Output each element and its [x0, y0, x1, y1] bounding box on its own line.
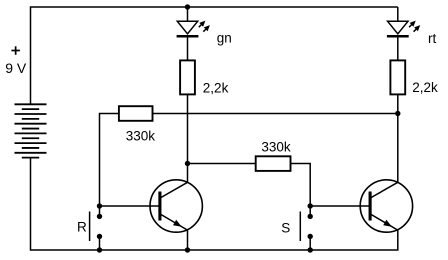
LED D2 light arrow 2	[414, 25, 421, 32]
transistor Q1	[150, 180, 202, 250]
LED D2 light arrow 1	[409, 21, 416, 28]
resistor 2,2k left	[180, 60, 195, 94]
wire cross coupling Q2 collector to 330k left resistor	[153, 113, 398, 115]
wire Q1 collector node to 330k right resistor	[188, 163, 256, 165]
node junction switch R / bottom rail	[97, 247, 102, 252]
resistor 330k left	[119, 106, 153, 121]
node junction Q2 collector / coupling wire	[395, 111, 400, 116]
wire Q2 collector column (resistor bottom to transistor)	[397, 94, 399, 182]
node junction Q2 base / switch S	[308, 203, 313, 208]
node junction Q1 emitter / bottom rail	[185, 247, 190, 252]
wire 330k right to Q2 base	[291, 164, 311, 207]
wire Q2 base	[310, 205, 370, 207]
svg-text:330k: 330k	[261, 140, 291, 155]
switch R	[90, 206, 103, 250]
svg-text:S: S	[281, 221, 290, 236]
wire Q1 base	[100, 205, 161, 207]
LED D1 light arrow 1	[199, 21, 206, 28]
svg-text:2,2k: 2,2k	[203, 80, 229, 95]
node junction top rail / LED1	[185, 4, 190, 9]
svg-text:rt: rt	[428, 31, 436, 46]
wire 330k left to Q1 base	[100, 114, 119, 207]
LED D2 rt	[387, 7, 409, 60]
node junction switch S / bottom rail	[308, 247, 313, 252]
wire top rail right (LED1 node to LED2)	[188, 6, 398, 8]
wire bottom rail right (to Q2 emitter)	[310, 230, 398, 250]
switch S	[300, 206, 313, 250]
node junction Q1 collector / 330k right coupling	[185, 161, 190, 166]
wire top rail left (battery + to LED1 node)	[31, 7, 188, 104]
wire Q1 collector column (resistor bottom to transistor)	[187, 94, 189, 182]
LED D1 gn	[177, 7, 199, 60]
LED D1 light arrow 2	[203, 25, 210, 32]
svg-text:9 V: 9 V	[5, 60, 27, 76]
svg-text:gn: gn	[217, 30, 232, 45]
node junction Q1 base / switch R	[97, 203, 102, 208]
resistor 2,2k right	[390, 60, 405, 94]
battery plus sign label	[11, 46, 20, 55]
transistor Q2	[360, 180, 412, 232]
wire bottom rail middle	[100, 249, 311, 251]
svg-text:2,2k: 2,2k	[412, 80, 438, 95]
wire battery - to bottom rail	[31, 158, 100, 250]
resistor 330k right	[256, 156, 291, 171]
svg-text:R: R	[77, 220, 87, 235]
battery B1 9V plates	[15, 104, 47, 157]
svg-text:330k: 330k	[126, 129, 156, 144]
